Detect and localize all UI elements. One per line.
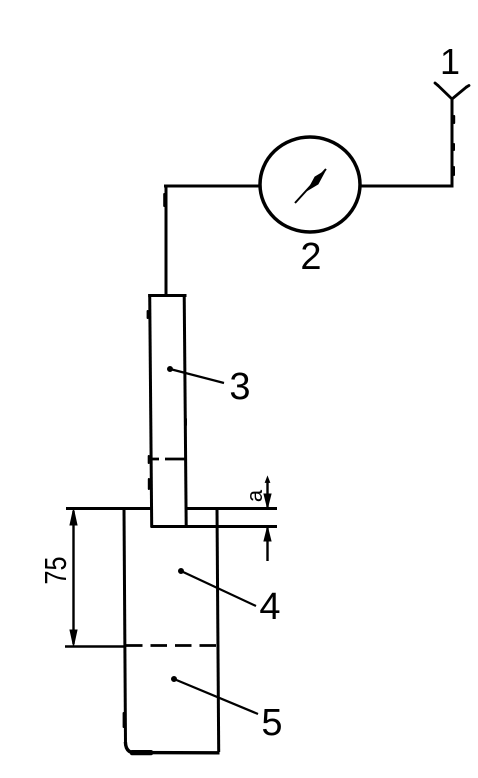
svg-text:75: 75 — [38, 557, 73, 585]
svg-text:a: a — [242, 489, 267, 502]
svg-text:1: 1 — [440, 41, 460, 82]
svg-text:4: 4 — [259, 586, 280, 628]
svg-text:3: 3 — [229, 366, 250, 408]
svg-text:5: 5 — [261, 702, 282, 744]
svg-text:2: 2 — [300, 236, 321, 278]
